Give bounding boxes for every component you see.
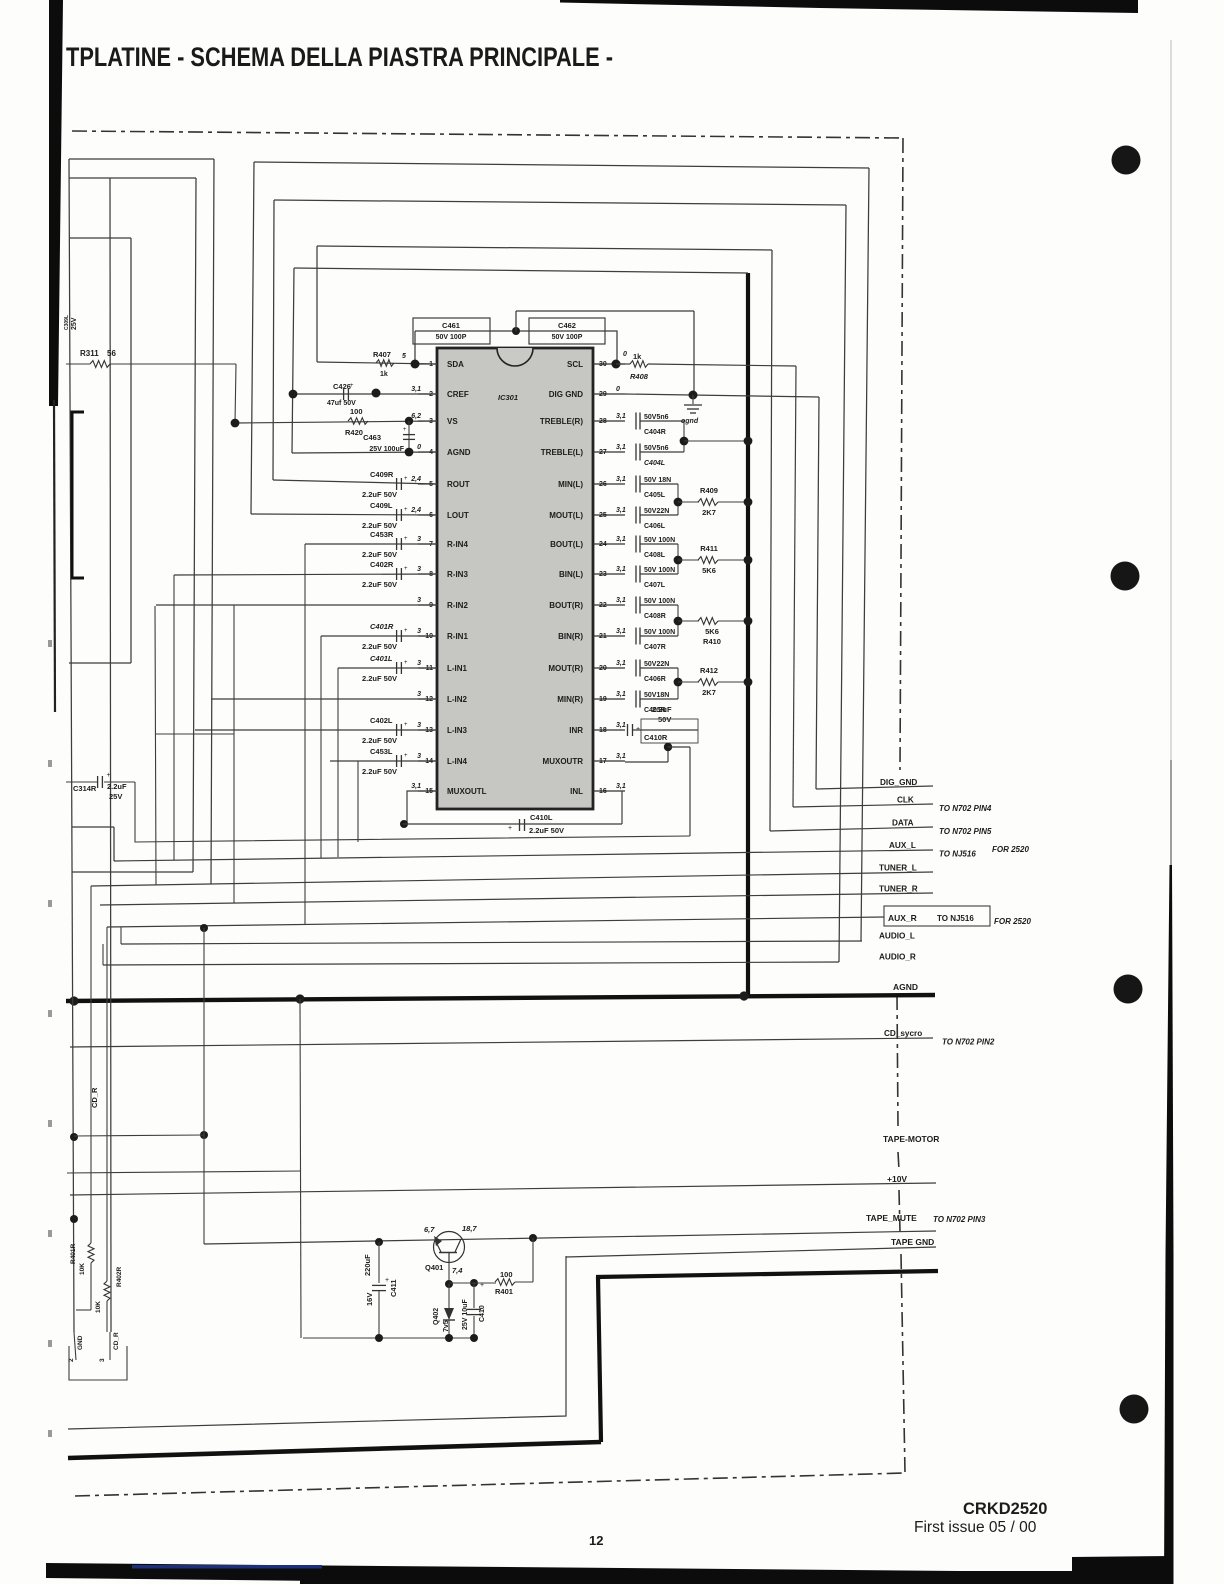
svg-text:3,1: 3,1: [411, 783, 421, 790]
svg-text:26: 26: [599, 481, 607, 488]
svg-text:+: +: [404, 536, 408, 542]
svg-text:TO N702 PIN3: TO N702 PIN3: [933, 1215, 986, 1224]
svg-text:CREF: CREF: [447, 390, 469, 399]
svg-text:First issue 05 / 00: First issue 05 / 00: [914, 1519, 1037, 1536]
svg-text:BOUT(R): BOUT(R): [549, 601, 583, 610]
svg-text:50V: 50V: [658, 715, 671, 724]
svg-text:L-IN1: L-IN1: [447, 664, 468, 673]
svg-text:100: 100: [500, 1270, 513, 1279]
svg-text:2.2uF 50V: 2.2uF 50V: [362, 580, 397, 589]
svg-text:DATA: DATA: [892, 819, 914, 828]
svg-text:R408: R408: [630, 372, 649, 381]
svg-text:3,1: 3,1: [616, 507, 626, 514]
svg-text:3,1: 3,1: [616, 691, 626, 698]
svg-text:MIN(L): MIN(L): [558, 480, 583, 489]
svg-text:22: 22: [599, 602, 607, 609]
svg-text:TAPE GND: TAPE GND: [891, 1237, 934, 1247]
svg-text:5: 5: [402, 353, 406, 360]
svg-text:50V 100N: 50V 100N: [644, 598, 675, 605]
svg-text:FOR 2520: FOR 2520: [994, 917, 1031, 926]
svg-text:C402R: C402R: [370, 560, 394, 569]
svg-text:CLK: CLK: [897, 795, 914, 804]
svg-text:AUX_L: AUX_L: [889, 841, 916, 850]
svg-text:2.2uF 50V: 2.2uF 50V: [362, 642, 397, 651]
svg-text:R401R: R401R: [70, 1243, 77, 1264]
svg-text:L-IN2: L-IN2: [447, 695, 468, 704]
svg-text:R-IN3: R-IN3: [447, 570, 468, 579]
svg-text:C463: C463: [363, 433, 381, 442]
svg-text:6,2: 6,2: [411, 413, 421, 420]
svg-text:L-IN3: L-IN3: [447, 726, 468, 735]
svg-text:3,1: 3,1: [616, 413, 626, 420]
svg-text:INL: INL: [570, 787, 583, 796]
svg-text:C309L: C309L: [64, 315, 70, 330]
svg-text:+: +: [404, 753, 408, 759]
svg-text:3,1: 3,1: [616, 444, 626, 451]
svg-text:BIN(R): BIN(R): [558, 632, 583, 641]
svg-text:47uf 50V: 47uf 50V: [327, 400, 356, 407]
svg-text:2.2uF 50V: 2.2uF 50V: [529, 826, 564, 835]
svg-text:16: 16: [599, 788, 607, 795]
svg-text:DIG GND: DIG GND: [549, 390, 583, 399]
svg-text:10K: 10K: [79, 1263, 86, 1275]
svg-text:BOUT(L): BOUT(L): [550, 540, 583, 549]
svg-text:27: 27: [599, 449, 607, 456]
svg-text:+: +: [508, 825, 512, 832]
svg-text:+: +: [385, 1277, 389, 1284]
svg-text:2K7: 2K7: [702, 688, 716, 697]
svg-text:L-IN4: L-IN4: [447, 757, 468, 766]
svg-text:Q401: Q401: [425, 1263, 443, 1272]
svg-text:INR: INR: [569, 726, 583, 735]
svg-text:TO NJ516: TO NJ516: [937, 914, 974, 923]
svg-text:5K6: 5K6: [702, 566, 716, 575]
svg-text:BIN(L): BIN(L): [559, 570, 583, 579]
svg-text:C402L: C402L: [370, 716, 393, 725]
svg-text:2.2uF 50V: 2.2uF 50V: [362, 674, 397, 683]
svg-text:MOUT(R): MOUT(R): [548, 664, 583, 673]
svg-text:AGND: AGND: [893, 982, 918, 992]
svg-text:MOUT(L): MOUT(L): [549, 511, 583, 520]
svg-text:C409L: C409L: [370, 501, 393, 510]
svg-text:+: +: [480, 1282, 484, 1289]
svg-text:C409R: C409R: [370, 470, 394, 479]
svg-text:C401R: C401R: [370, 622, 394, 631]
svg-text:ognd: ognd: [681, 418, 699, 425]
svg-text:3,1: 3,1: [616, 722, 626, 729]
svg-text:TUNER_R: TUNER_R: [879, 884, 918, 893]
svg-text:2K7: 2K7: [702, 508, 716, 517]
svg-text:3,1: 3,1: [616, 783, 626, 790]
svg-text:50V5n6: 50V5n6: [644, 445, 669, 452]
svg-text:56: 56: [107, 349, 116, 358]
svg-text:VS: VS: [447, 417, 458, 426]
svg-text:2.2uF 50V: 2.2uF 50V: [362, 550, 397, 559]
svg-text:3,1: 3,1: [616, 753, 626, 760]
svg-text:16V: 16V: [365, 1293, 374, 1306]
svg-text:50V 100P: 50V 100P: [436, 334, 467, 341]
svg-text:3,1: 3,1: [616, 597, 626, 604]
svg-text:3,1: 3,1: [411, 386, 421, 393]
svg-text:2.2uF 50V: 2.2uF 50V: [362, 490, 397, 499]
svg-text:0: 0: [623, 351, 627, 358]
svg-text:+: +: [404, 476, 408, 482]
svg-text:C407L: C407L: [644, 582, 666, 589]
svg-text:+: +: [403, 427, 407, 433]
svg-text:7,4: 7,4: [452, 1266, 463, 1275]
svg-text:3: 3: [417, 628, 421, 635]
svg-text:18,7: 18,7: [462, 1224, 477, 1233]
svg-text:3: 3: [417, 753, 421, 760]
svg-text:C453R: C453R: [370, 530, 394, 539]
svg-text:C408L: C408L: [644, 552, 666, 559]
svg-text:C406R: C406R: [644, 676, 666, 683]
svg-text:25V 10uF: 25V 10uF: [462, 1299, 469, 1330]
svg-text:30: 30: [599, 361, 607, 368]
svg-text:2.2uF: 2.2uF: [107, 782, 127, 791]
svg-text:+: +: [404, 566, 408, 572]
svg-text:10K: 10K: [95, 1301, 102, 1313]
svg-text:3: 3: [417, 722, 421, 729]
svg-text:25V: 25V: [109, 792, 122, 801]
svg-text:R410: R410: [703, 637, 721, 646]
svg-text:50V5n6: 50V5n6: [644, 414, 669, 421]
svg-text:AGND: AGND: [447, 448, 471, 457]
svg-text:C410: C410: [479, 1305, 486, 1322]
svg-text:50V 100P: 50V 100P: [552, 334, 583, 341]
svg-text:C410R: C410R: [644, 733, 668, 742]
svg-text:3: 3: [417, 566, 421, 573]
svg-text:0: 0: [417, 444, 421, 451]
svg-text:25: 25: [599, 512, 607, 519]
svg-text:AUDIO_L: AUDIO_L: [879, 931, 915, 940]
svg-text:C461: C461: [442, 321, 460, 330]
svg-text:23: 23: [599, 571, 607, 578]
svg-text:3: 3: [417, 691, 421, 698]
svg-text:TO N702 PIN4: TO N702 PIN4: [939, 804, 992, 813]
svg-text:3,1: 3,1: [616, 476, 626, 483]
svg-text:2,4: 2,4: [410, 507, 421, 514]
svg-text:50V 100N: 50V 100N: [644, 567, 675, 574]
svg-text:6,7: 6,7: [424, 1225, 435, 1234]
svg-text:20: 20: [599, 665, 607, 672]
svg-text:2,4: 2,4: [410, 476, 421, 483]
svg-text:R402R: R402R: [116, 1266, 123, 1287]
svg-text:TAPE-MOTOR: TAPE-MOTOR: [883, 1134, 939, 1144]
svg-text:C404R: C404R: [644, 429, 666, 436]
svg-text:CD_R: CD_R: [113, 1332, 120, 1350]
svg-text:AUDIO_R: AUDIO_R: [879, 952, 916, 961]
svg-text:29: 29: [599, 391, 607, 398]
svg-text:AUX_R: AUX_R: [888, 913, 917, 923]
svg-text:C401L: C401L: [370, 654, 393, 663]
svg-text:Q402: Q402: [433, 1308, 440, 1325]
svg-text:3: 3: [99, 1358, 106, 1362]
svg-text:3,1: 3,1: [616, 566, 626, 573]
svg-text:FOR 2520: FOR 2520: [992, 845, 1029, 854]
svg-text:50V18N: 50V18N: [644, 692, 669, 699]
svg-text:28: 28: [599, 418, 607, 425]
svg-text:21: 21: [599, 633, 607, 640]
svg-text:C407R: C407R: [644, 644, 666, 651]
svg-text:2.2uF 50V: 2.2uF 50V: [362, 767, 397, 776]
svg-text:3: 3: [417, 597, 421, 604]
svg-text:100: 100: [350, 407, 363, 416]
svg-text:25V: 25V: [71, 317, 78, 330]
svg-text:5: 5: [429, 481, 433, 488]
svg-text:+: +: [404, 628, 408, 634]
svg-text:LOUT: LOUT: [447, 511, 469, 520]
svg-text:17: 17: [599, 758, 607, 765]
svg-text:TPLATINE - SCHEMA DELLA PIASTR: TPLATINE - SCHEMA DELLA PIASTRA PRINCIPA…: [66, 42, 613, 72]
svg-text:DIG_GND: DIG_GND: [880, 778, 917, 787]
svg-text:50V22N: 50V22N: [644, 661, 669, 668]
svg-text:CD_sycro: CD_sycro: [884, 1029, 922, 1038]
svg-text:R311: R311: [80, 349, 99, 358]
svg-text:R-IN4: R-IN4: [447, 540, 468, 549]
svg-text:R-IN2: R-IN2: [447, 601, 468, 610]
svg-text:TUNER_L: TUNER_L: [879, 863, 917, 872]
svg-text:SDA: SDA: [447, 360, 464, 369]
svg-text:SCL: SCL: [567, 360, 583, 369]
svg-text:2.2uF: 2.2uF: [652, 705, 672, 714]
svg-text:220uF: 220uF: [363, 1254, 372, 1276]
svg-text:+: +: [404, 507, 408, 513]
svg-text:C411: C411: [389, 1279, 398, 1297]
svg-text:50V 18N: 50V 18N: [644, 477, 671, 484]
svg-text:3,1: 3,1: [616, 628, 626, 635]
svg-text:2.2uF 50V: 2.2uF 50V: [362, 521, 397, 530]
svg-text:R-IN1: R-IN1: [447, 632, 468, 641]
svg-text:2.2uF 50V: 2.2uF 50V: [362, 736, 397, 745]
svg-text:TAPE_MUTE: TAPE_MUTE: [866, 1213, 917, 1223]
svg-text:TREBLE(L): TREBLE(L): [541, 448, 584, 457]
svg-text:50V 100N: 50V 100N: [644, 537, 675, 544]
svg-text:1k: 1k: [380, 371, 388, 378]
svg-text:C410L: C410L: [530, 813, 553, 822]
svg-text:0: 0: [616, 386, 620, 393]
svg-text:3,1: 3,1: [616, 536, 626, 543]
svg-text:3: 3: [417, 660, 421, 667]
svg-text:50V22N: 50V22N: [644, 508, 669, 515]
svg-text:CRKD2520: CRKD2520: [963, 1500, 1047, 1518]
svg-text:R401: R401: [495, 1287, 513, 1296]
svg-text:MUXOUTL: MUXOUTL: [447, 787, 487, 796]
svg-text:TO NJ516: TO NJ516: [939, 850, 976, 859]
svg-text:MUXOUTR: MUXOUTR: [543, 757, 584, 766]
svg-text:MIN(R): MIN(R): [557, 695, 583, 704]
svg-text:TREBLE(R): TREBLE(R): [540, 417, 583, 426]
svg-text:IC301: IC301: [498, 393, 518, 402]
svg-text:ROUT: ROUT: [447, 480, 470, 489]
svg-text:C408R: C408R: [644, 613, 666, 620]
svg-text:TO N702 PIN5: TO N702 PIN5: [939, 827, 992, 836]
svg-text:12: 12: [589, 1533, 603, 1548]
svg-text:3: 3: [417, 536, 421, 543]
svg-text:R412: R412: [700, 666, 718, 675]
svg-text:C453L: C453L: [370, 747, 393, 756]
svg-text:R409: R409: [700, 486, 718, 495]
svg-text:R420: R420: [345, 428, 363, 437]
svg-text:+: +: [404, 660, 408, 666]
svg-text:7v5: 7v5: [443, 1320, 450, 1332]
svg-text:C404L: C404L: [644, 460, 665, 467]
svg-text:18: 18: [599, 727, 607, 734]
svg-text:+: +: [350, 383, 354, 389]
svg-text:GND: GND: [77, 1335, 84, 1350]
svg-text:TO N702 PIN2: TO N702 PIN2: [942, 1038, 995, 1047]
svg-text:C406L: C406L: [644, 523, 666, 530]
svg-text:+10V: +10V: [887, 1174, 907, 1184]
svg-text:R407: R407: [373, 350, 391, 359]
svg-text:+: +: [106, 772, 110, 779]
svg-text:C405L: C405L: [644, 492, 666, 499]
svg-text:19: 19: [599, 696, 607, 703]
svg-text:C314R: C314R: [73, 784, 97, 793]
svg-text:50V 100N: 50V 100N: [644, 629, 675, 636]
svg-text:R411: R411: [700, 544, 718, 553]
svg-text:+: +: [404, 722, 408, 728]
svg-text:2: 2: [68, 1358, 75, 1362]
svg-text:24: 24: [599, 541, 607, 548]
svg-text:C462: C462: [558, 321, 576, 330]
svg-text:3,1: 3,1: [616, 660, 626, 667]
svg-text:5K6: 5K6: [705, 627, 719, 636]
